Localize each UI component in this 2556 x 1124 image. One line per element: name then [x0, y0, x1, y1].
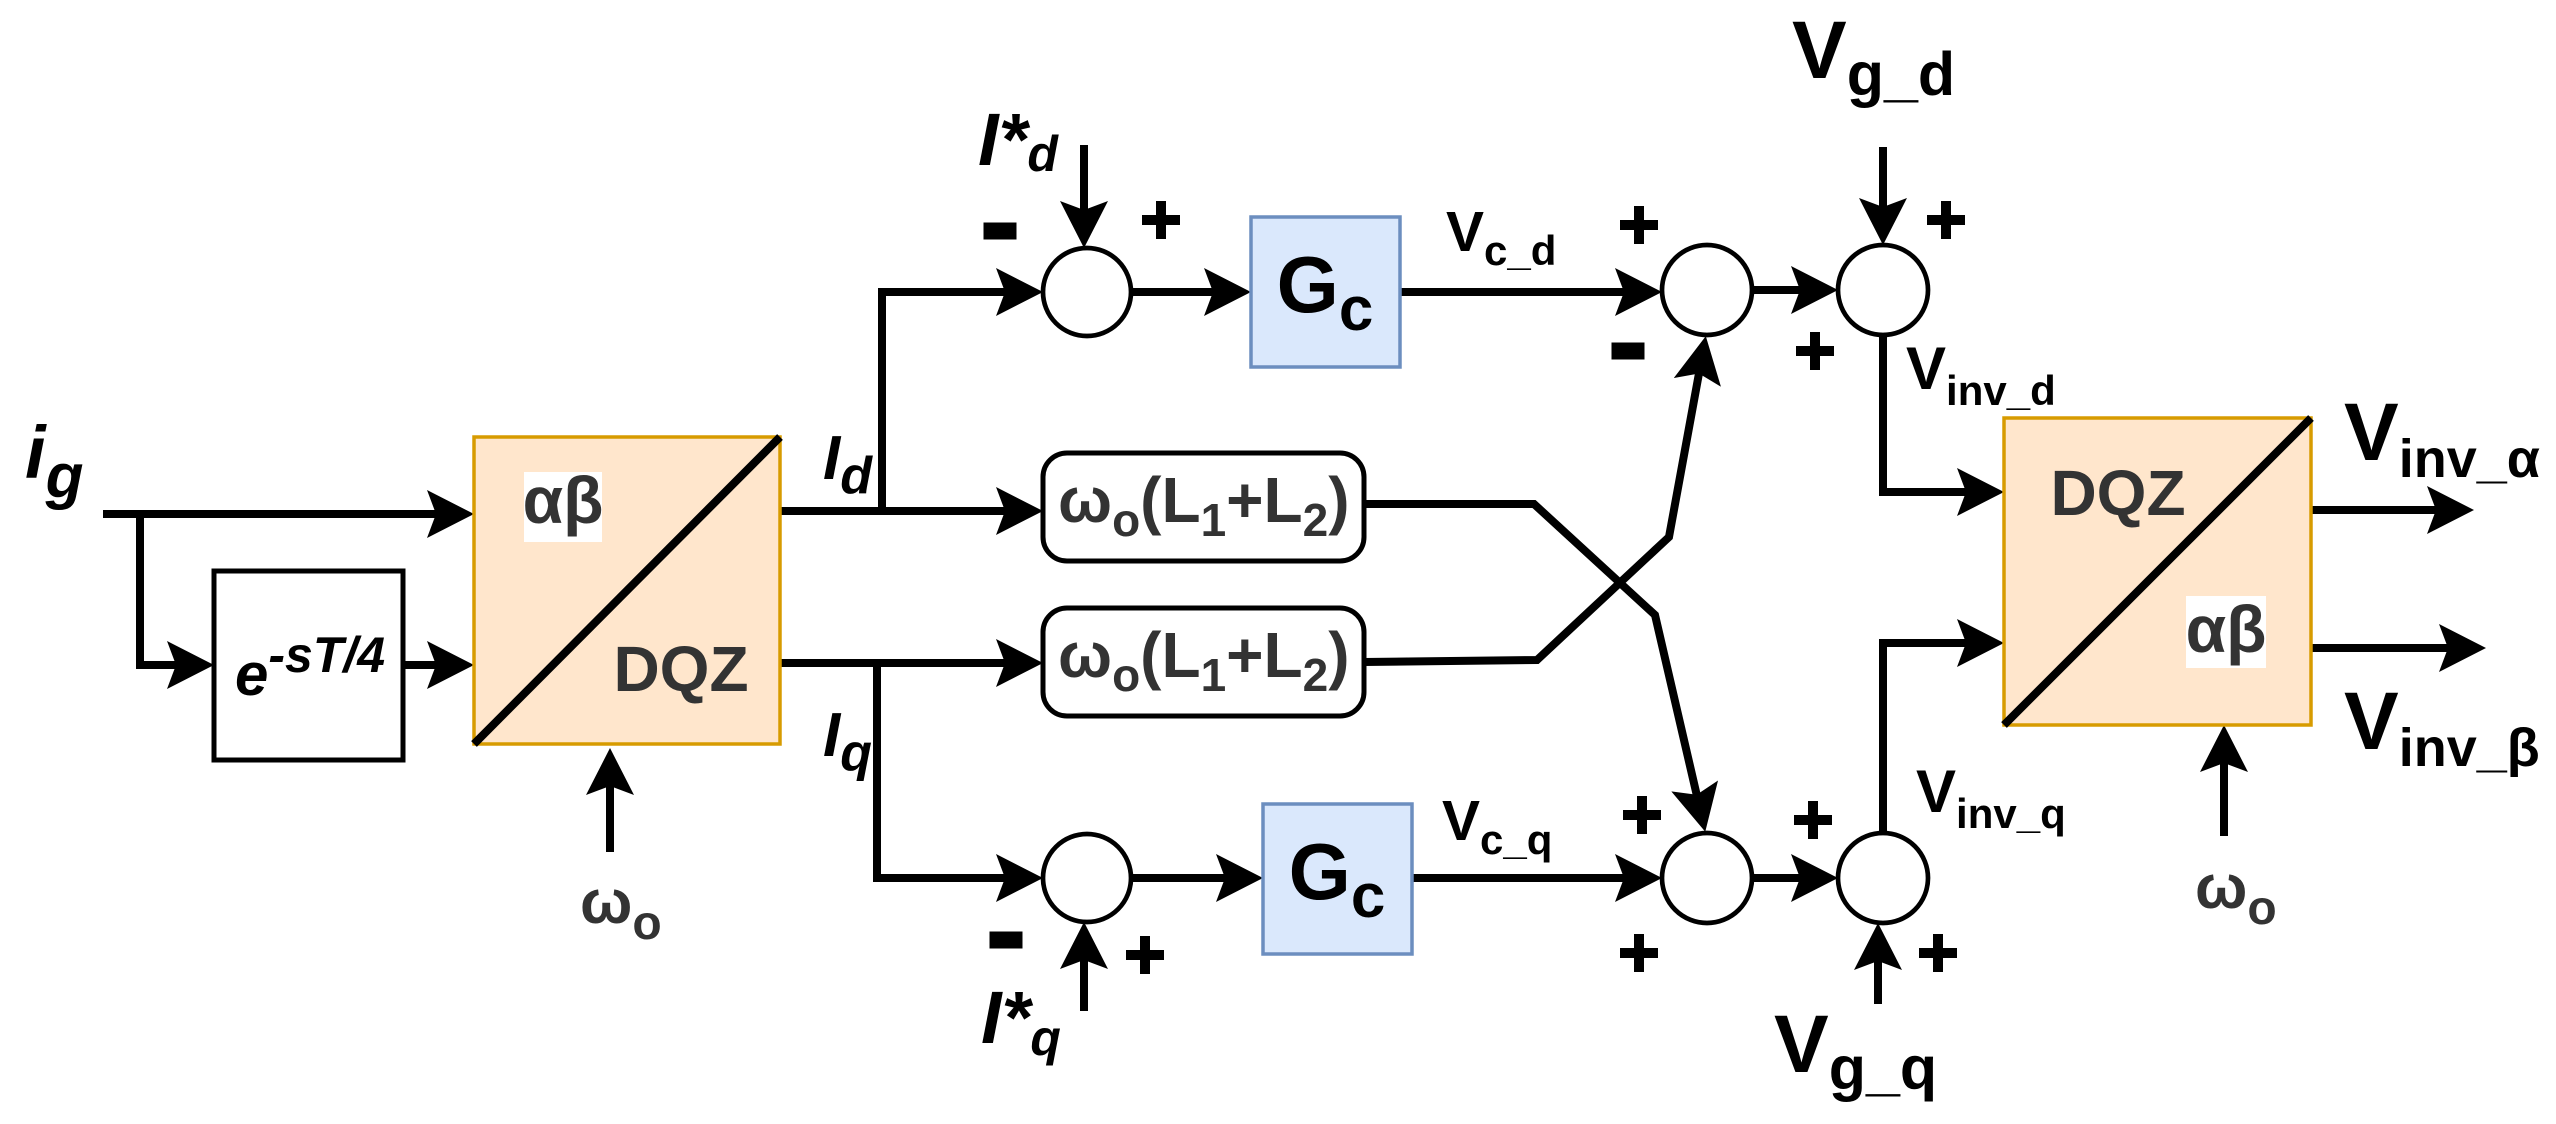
svg-text:ig: ig — [25, 411, 83, 511]
svg-text:Vinv_β: Vinv_β — [2344, 676, 2540, 778]
svg-text:αβ: αβ — [2186, 592, 2267, 666]
svg-text:Iq: Iq — [823, 701, 872, 782]
svg-text:DQZ: DQZ — [613, 633, 748, 705]
svg-text:I*q: I*q — [981, 976, 1061, 1066]
svg-text:Vinv_d: Vinv_d — [1906, 335, 2056, 414]
svg-text:αβ: αβ — [523, 463, 604, 537]
svg-text:I*d: I*d — [978, 98, 1059, 182]
svg-text:DQZ: DQZ — [2050, 457, 2185, 529]
svg-text:Vc_d: Vc_d — [1446, 200, 1556, 274]
svg-text:Id: Id — [823, 424, 873, 505]
svg-text:Vc_q: Vc_q — [1442, 789, 1552, 863]
svg-text:ωo: ωo — [580, 868, 662, 950]
svg-text:Vinv_α: Vinv_α — [2344, 387, 2540, 489]
svg-text:Vg_d: Vg_d — [1792, 5, 1955, 108]
svg-text:ωo: ωo — [2195, 853, 2277, 935]
svg-text:Vinv_q: Vinv_q — [1916, 758, 2066, 837]
svg-text:Vg_q: Vg_q — [1774, 999, 1937, 1102]
